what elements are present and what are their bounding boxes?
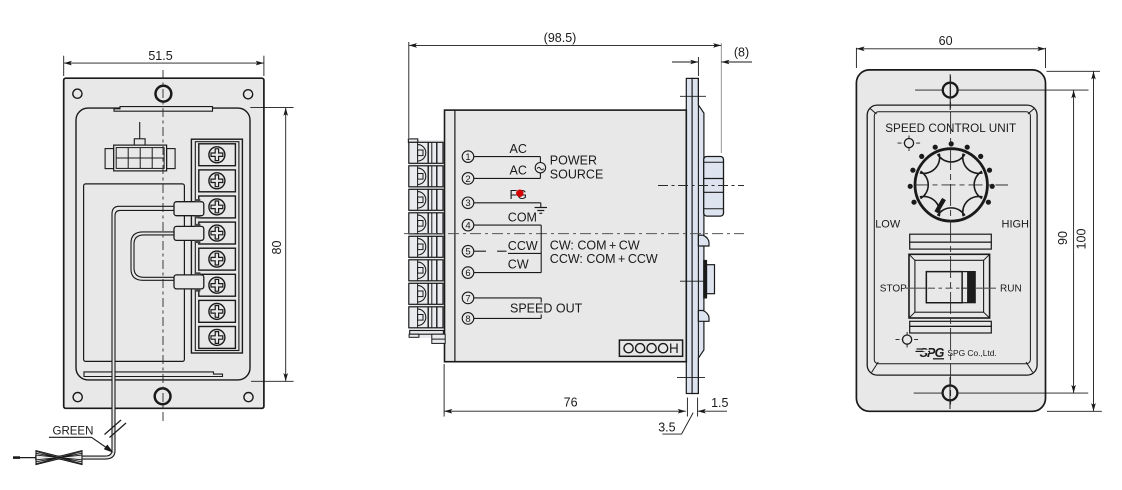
svg-text:CCW: CCW: [508, 239, 538, 253]
svg-text:3.5: 3.5: [658, 421, 675, 435]
stack base strip: [409, 140, 443, 338]
svg-text:3: 3: [465, 198, 470, 209]
terminal 7 circle: [462, 292, 474, 304]
switch bezel: [909, 254, 990, 318]
flange cutout mark lower: [677, 377, 705, 379]
terminal 4 circle: [462, 219, 474, 231]
wire line 6 CW: [474, 257, 541, 272]
svg-text:80: 80: [270, 241, 284, 255]
terminal block cells: [199, 144, 236, 349]
wire line 7: [474, 297, 541, 299]
body case: [445, 110, 687, 362]
svg-text:LOW: LOW: [875, 218, 901, 230]
svg-text:4: 4: [465, 221, 470, 232]
wire break marks: [105, 420, 127, 438]
switch black bar: [968, 272, 976, 303]
wire line 8: [474, 317, 541, 319]
terminal 3 circle: [462, 197, 474, 209]
knob centerline overlay: [915, 184, 1009, 186]
terminal 2 circle: [462, 173, 474, 185]
connector left tab: [105, 149, 114, 169]
terminal stack side view: [408, 139, 445, 344]
stop/run line: [906, 273, 996, 302]
pcb outline: [84, 184, 185, 362]
terminal 8 circle: [462, 313, 474, 325]
connector body: [114, 145, 167, 171]
vent bars upper: [910, 234, 992, 249]
STOP label: [880, 284, 907, 295]
svg-text:100: 100: [1075, 229, 1089, 250]
svg-text:GREEN: GREEN: [53, 426, 94, 438]
wire line 3 FG: [474, 188, 541, 203]
svg-text:COM: COM: [508, 210, 537, 224]
flange plate B / front panel edge: [692, 78, 704, 393]
red indicator dot: [516, 190, 523, 197]
connector lead line: [139, 122, 141, 139]
lug on terminal 3: [174, 199, 204, 218]
svg-text:60: 60: [939, 34, 953, 48]
svg-text:HIGH: HIGH: [1002, 218, 1030, 230]
LOW label: [875, 218, 901, 230]
knob pointer: [936, 199, 944, 212]
stack top cap: [408, 139, 417, 143]
svg-text:(8): (8): [734, 46, 749, 60]
dimension (98.5): [409, 31, 722, 153]
svg-text:5: 5: [465, 247, 470, 258]
wire W1 to lug 3: [35, 206, 175, 459]
svg-text:CW: CW: [508, 257, 529, 271]
switch handle outline: [926, 272, 962, 303]
dimension 80: [250, 108, 293, 382]
knob shaft boss: [704, 157, 724, 217]
lug on terminal 6: [174, 272, 204, 291]
svg-text:AC: AC: [510, 164, 527, 178]
svg-text:SPEED OUT: SPEED OUT: [510, 301, 583, 315]
dimension 3.5 leader: [658, 413, 693, 435]
svg-text:STOP: STOP: [880, 284, 907, 295]
svg-text:51.5: 51.5: [148, 49, 172, 63]
dimension 51.5: [64, 49, 264, 76]
RUN label: [1000, 284, 1022, 295]
label plate OOOOH: [619, 340, 682, 356]
top slit bar: [114, 107, 213, 112]
HIGH label: [1002, 218, 1030, 230]
wire line 1: [474, 142, 540, 157]
cw ccw bracket: [541, 225, 658, 273]
small screw bottom-left: [896, 332, 920, 348]
terminal block frame: [191, 139, 242, 353]
dimension 1.5: [698, 396, 729, 411]
bottom slit bar: [84, 372, 223, 377]
terminal 6 circle: [462, 267, 474, 279]
corner screw hole bottom-left: [73, 393, 82, 402]
top screw: [915, 74, 1088, 110]
vertical centerline: [950, 76, 952, 405]
slide switch: [926, 272, 975, 303]
left view centerline: [162, 70, 164, 421]
knob horizontal centerline: [915, 184, 1009, 186]
recessed face bevel: [870, 108, 1035, 372]
svg-text:90: 90: [1056, 231, 1070, 245]
front panel plate: [64, 78, 264, 408]
svg-text:POWER: POWER: [550, 154, 597, 168]
svg-text:8: 8: [465, 314, 470, 325]
bottom screw: [914, 377, 1088, 409]
terminal 1 circle: [462, 151, 474, 163]
dimension 100: [1047, 71, 1102, 411]
GREEN label: [49, 426, 114, 453]
corner screw hole bottom-right: [244, 393, 253, 402]
unit horizontal centerline: [404, 233, 744, 235]
svg-text:AC: AC: [510, 142, 527, 156]
corner screw hole top-right: [244, 90, 253, 99]
svg-text:2: 2: [465, 174, 470, 185]
speed out bracket: [508, 298, 583, 319]
run/stop switch side view: [680, 260, 715, 298]
wire line 2: [474, 164, 540, 179]
terminal 5 circle: [462, 245, 474, 257]
svg-text:1: 1: [465, 152, 470, 163]
svg-text:CW: COM + CW: CW: COM + CW: [550, 238, 640, 252]
connector right tab: [167, 149, 176, 169]
small screw top-left: [898, 136, 922, 152]
knob: [915, 149, 987, 221]
ground symbol: [535, 203, 547, 214]
mounting hole bottom center: [155, 388, 171, 404]
power source node: [535, 154, 603, 182]
dimension 90: [1056, 90, 1074, 393]
lug on terminal 4: [174, 224, 204, 243]
wire line 5 CCW: [474, 239, 541, 253]
wire W2 loop lug4-lug6: [131, 232, 175, 280]
svg-text:7: 7: [465, 293, 470, 304]
svg-text:76: 76: [564, 396, 578, 410]
vent bars lower: [910, 321, 992, 333]
green wire twisted end: [13, 451, 82, 465]
SPG logo: [916, 346, 997, 360]
svg-text:SOURCE: SOURCE: [550, 168, 603, 182]
dimension (8): [672, 46, 752, 77]
mounting hole top center: [156, 86, 172, 102]
recessed face outer: [867, 105, 1037, 375]
svg-text:1.5: 1.5: [711, 396, 728, 410]
stack cells: [409, 142, 443, 327]
mounting hook bottom: [698, 311, 709, 322]
svg-text:H: H: [669, 341, 679, 356]
shaft centerline: [658, 185, 744, 187]
flange cutout mark upper: [680, 95, 706, 97]
front panel: [856, 70, 1045, 411]
svg-text:SPG Co.,Ltd.: SPG Co.,Ltd.: [947, 348, 996, 358]
stack bottom cap: [409, 331, 445, 344]
mounting hook top: [698, 235, 709, 246]
svg-text:CCW: COM + CCW: CCW: COM + CCW: [550, 252, 658, 266]
left view wires and lugs: [13, 199, 204, 465]
inner recessed frame: [76, 108, 250, 380]
flange plate A: [686, 78, 692, 393]
connector top notch: [134, 139, 145, 145]
svg-text:(98.5): (98.5): [544, 31, 577, 45]
dimension 76: [444, 364, 697, 417]
corner screw hole top-left: [73, 89, 82, 98]
svg-text:6: 6: [465, 268, 470, 279]
knob scale dots: [908, 141, 995, 205]
svg-text:RUN: RUN: [1000, 284, 1022, 295]
wire line 4 COM: [474, 210, 541, 225]
SPEED CONTROL UNIT title: [885, 122, 1016, 135]
dimension 60: [856, 34, 1045, 68]
